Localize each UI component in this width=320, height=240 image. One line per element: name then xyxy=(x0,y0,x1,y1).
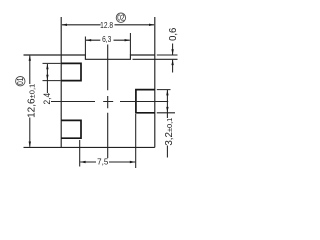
horizontal centerline xyxy=(51,101,168,103)
0,6 dimension line lower tail with up arrow xyxy=(172,60,174,73)
pad lower-left xyxy=(61,120,81,138)
arrow right 6,3 xyxy=(125,39,131,41)
balloon 01 xyxy=(16,77,25,86)
arrow right 12.8 xyxy=(149,24,155,26)
dimension 6,3 line xyxy=(86,39,130,41)
body outline top edge with 0,6 recess xyxy=(61,55,155,59)
label 2,4 (rotated) xyxy=(42,93,53,105)
svg-text:3,2±0,1: 3,2±0,1 xyxy=(164,118,175,146)
pad upper-left xyxy=(61,63,81,80)
6,3 left extension xyxy=(84,37,86,56)
dimension 0,6 extension upper xyxy=(157,54,178,56)
arrow left 6,3 xyxy=(86,39,92,41)
0,6 dimension line upper tail with down arrow xyxy=(172,44,174,55)
svg-text:12,6±0,1: 12,6±0,1 xyxy=(27,84,38,118)
dimension 12,6 line upper part with up arrow xyxy=(29,56,31,84)
dimension 2,4 line with inside arrows and tail to text xyxy=(46,64,48,93)
6,3 right extension xyxy=(129,33,131,55)
12,6 top extension line xyxy=(24,54,61,56)
dimension 3,2 line with inside arrows and tail to text xyxy=(166,90,168,158)
label 12,6±0,1 (rotated) xyxy=(27,84,38,118)
svg-text:12.8: 12.8 xyxy=(100,20,113,30)
dimension 12.8 line xyxy=(62,24,154,26)
arrow left 12.8 xyxy=(61,24,67,26)
dimension 0,6 extension lower xyxy=(133,58,178,60)
pad right xyxy=(136,90,155,113)
dimension 2,4 extensions xyxy=(43,63,61,80)
svg-text:7,5: 7,5 xyxy=(97,156,109,166)
arrow left 7,5 xyxy=(80,161,86,163)
svg-text:01: 01 xyxy=(16,78,26,85)
arrow right 7,5 xyxy=(130,161,136,163)
dimension 3,2 extensions xyxy=(157,90,175,113)
svg-text:0,6: 0,6 xyxy=(168,28,179,41)
body right edge + 12.8 extension above xyxy=(154,17,156,147)
dimension 7,5 line xyxy=(80,161,135,163)
body left edge + 12.8 extension above xyxy=(60,17,62,147)
vertical centerline xyxy=(107,45,109,159)
dimension 7,5 extensions xyxy=(80,114,136,168)
label 3,2±0,1 (rotated) xyxy=(164,118,175,146)
label 0,6 (rotated) xyxy=(168,28,179,41)
body bottom edge + 12,6 extension to left xyxy=(24,146,155,148)
svg-text:6,3: 6,3 xyxy=(102,34,111,44)
svg-text:2,4: 2,4 xyxy=(42,93,53,105)
balloon 02 xyxy=(116,13,125,22)
dimension 12,6 line lower part with down arrow xyxy=(29,118,31,147)
svg-text:02: 02 xyxy=(117,13,124,23)
